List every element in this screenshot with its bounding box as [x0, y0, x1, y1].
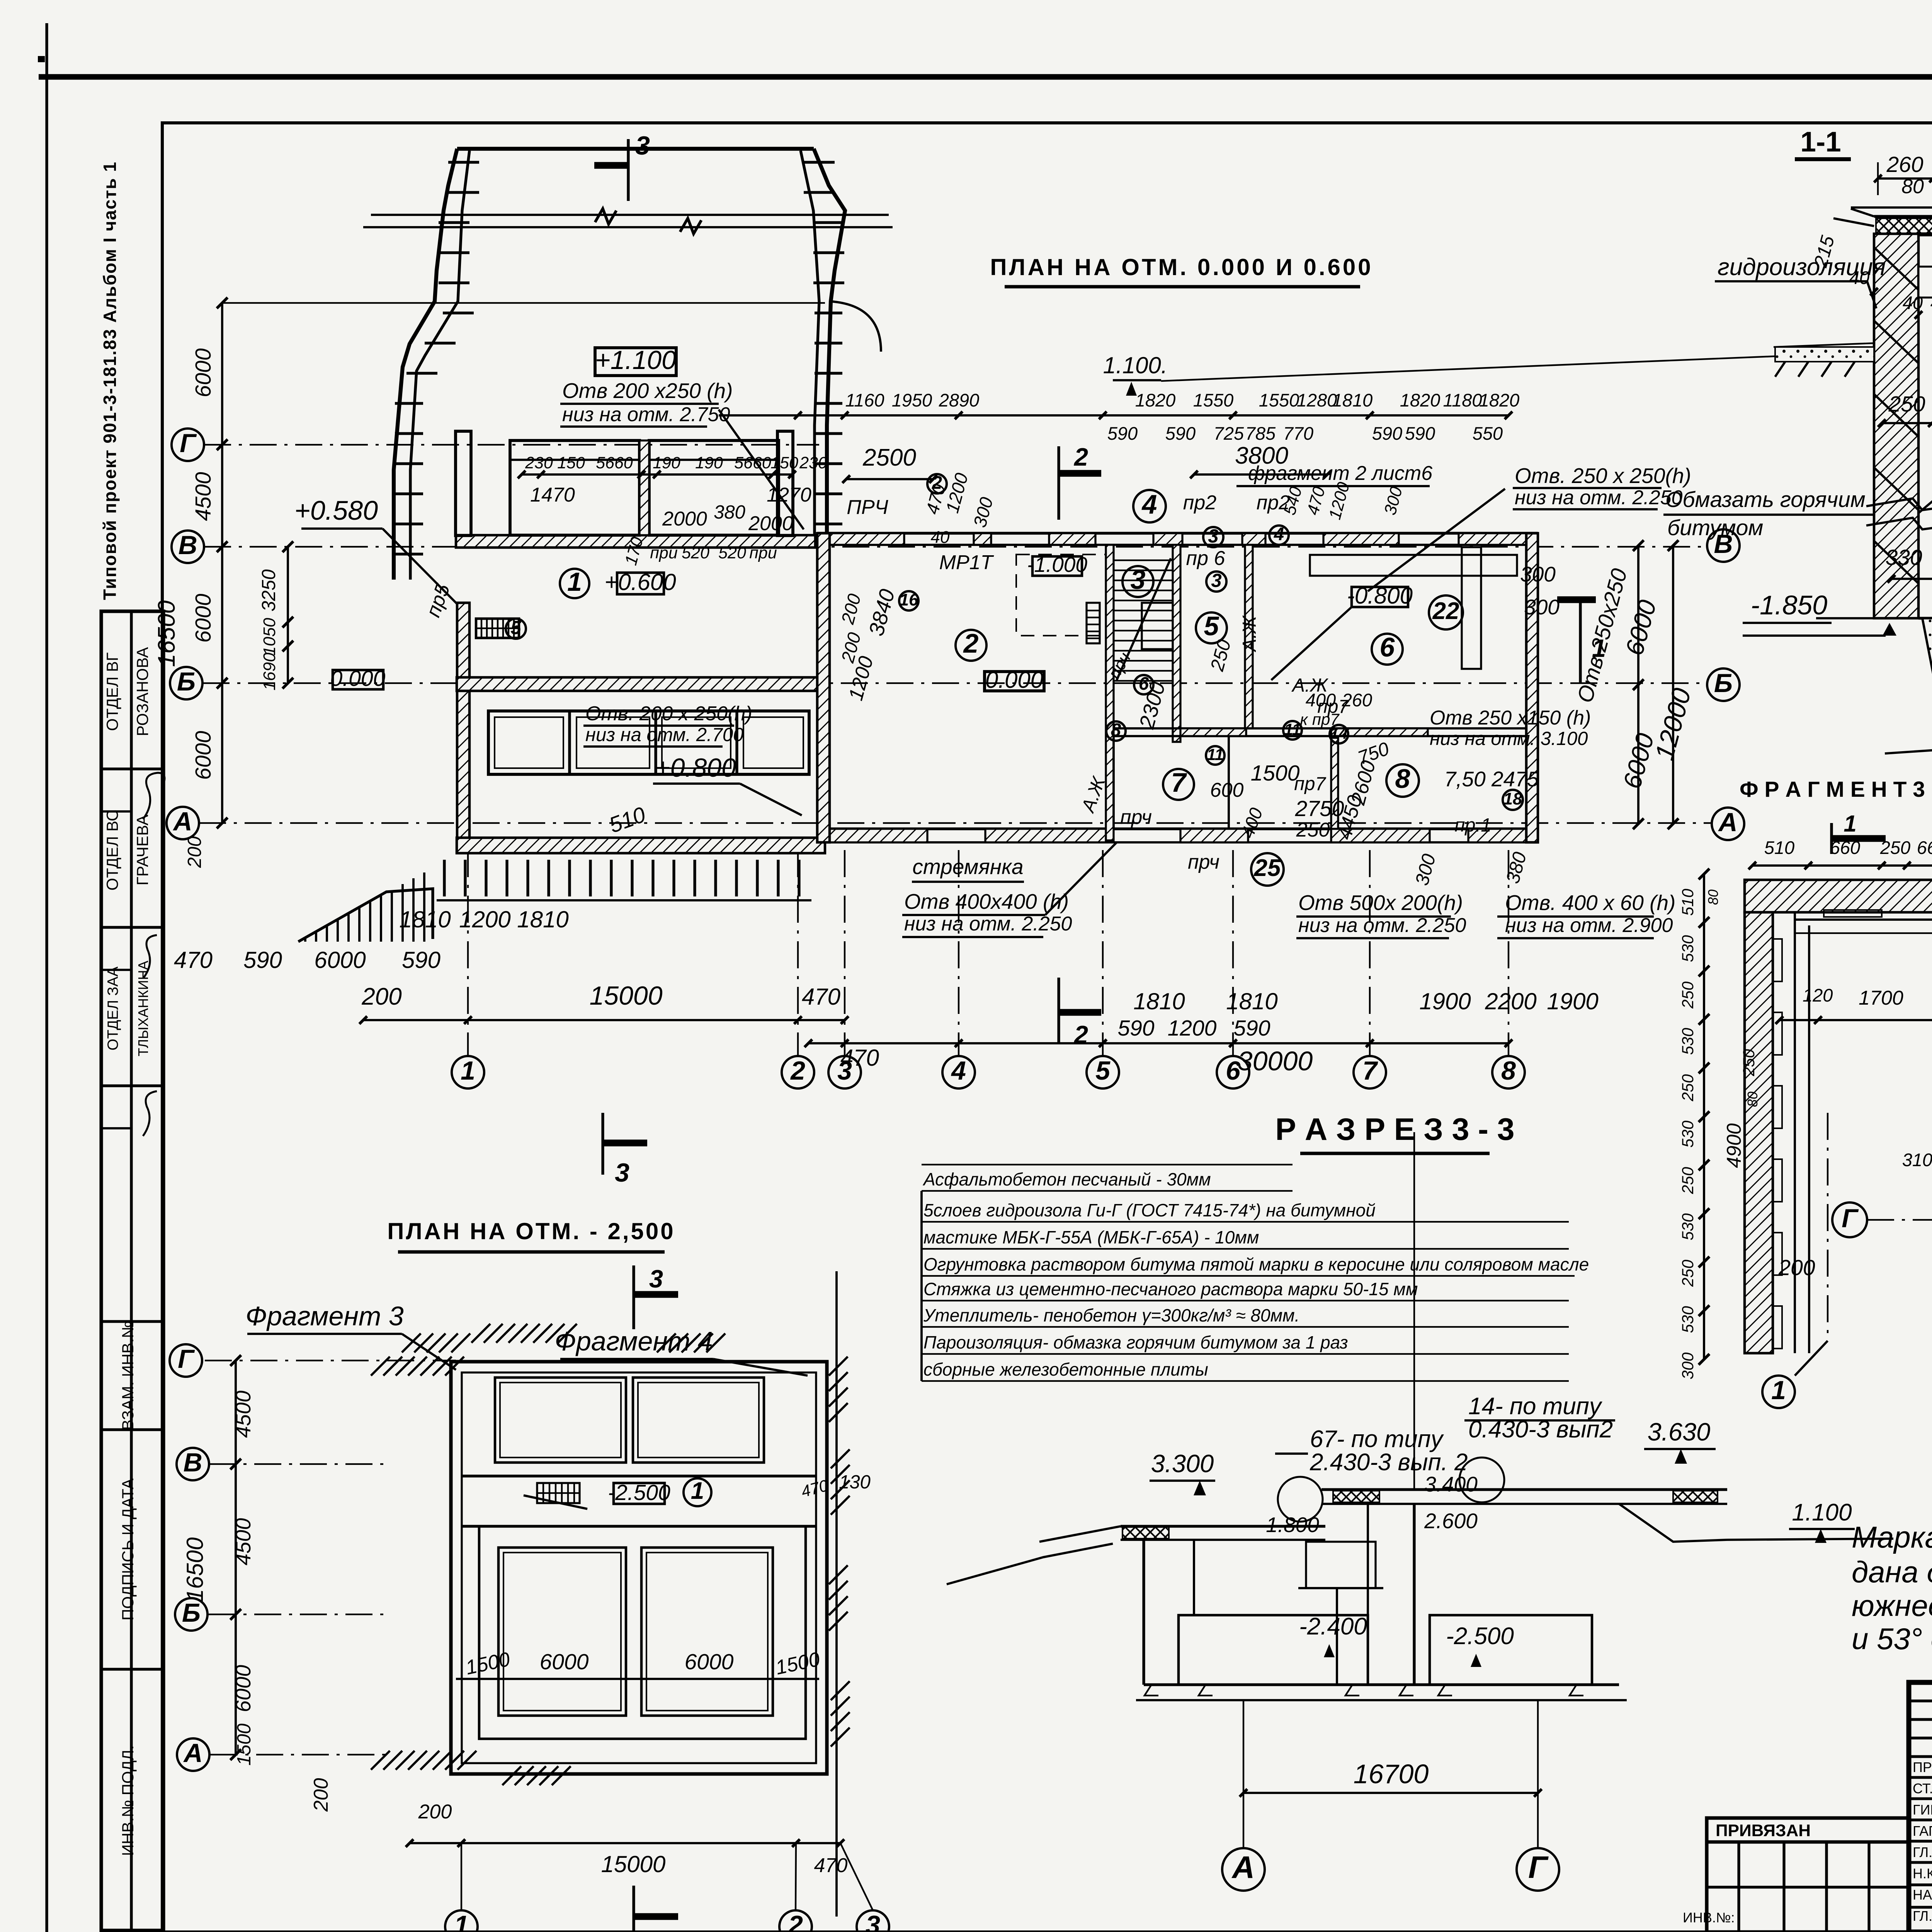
- svg-text:2750: 2750: [1295, 796, 1344, 821]
- фрагмент 3 top dims: [1748, 837, 1932, 869]
- stair block walls: [1106, 545, 1180, 840]
- svg-text:1950: 1950: [892, 390, 932, 410]
- svg-text:660: 660: [1830, 837, 1860, 858]
- section 1-1 dims top: [1874, 152, 1932, 198]
- svg-text:530: 530: [1679, 1213, 1697, 1240]
- svg-text:3.400: 3.400: [1424, 1472, 1478, 1496]
- plan -2.500 middle band: [524, 1478, 711, 1509]
- svg-text:А: А: [1231, 1850, 1255, 1885]
- svg-text:3250: 3250: [259, 569, 279, 611]
- plan -2.500 axes: [170, 1344, 456, 1812]
- svg-text:1: 1: [1844, 811, 1856, 837]
- svg-text:+0.800: +0.800: [655, 753, 736, 782]
- svg-text:НАЧ.ОТД: НАЧ.ОТД: [1913, 1887, 1932, 1903]
- svg-text:4900: 4900: [1723, 1123, 1745, 1168]
- svg-text:40: 40: [1903, 293, 1923, 313]
- svg-text:ПЛАН НА ОТМ. - 2,500: ПЛАН НА ОТМ. - 2,500: [387, 1218, 675, 1244]
- отв 200х250 label (2.700): [583, 702, 752, 747]
- svg-text:200: 200: [418, 1801, 452, 1823]
- pit dashed room2: [1016, 554, 1106, 636]
- svg-text:-1.850: -1.850: [1751, 590, 1828, 620]
- svg-text:4: 4: [1141, 489, 1157, 519]
- svg-text:дана для районов строительства: дана для районов строительства, располож…: [1852, 1555, 1932, 1589]
- отв 400х400 annotation: [902, 842, 1117, 937]
- svg-text:А.Ж: А.Ж: [1077, 774, 1110, 816]
- room1 grating: [476, 619, 519, 638]
- svg-text:3: 3: [866, 1910, 880, 1932]
- svg-text:пр5: пр5: [422, 581, 454, 620]
- elevation 0.000 room2: [985, 667, 1044, 693]
- svg-text:ПРЧ: ПРЧ: [847, 496, 888, 519]
- svg-text:2: 2: [790, 1056, 805, 1085]
- svg-text:5слоев гидроизола Ги-Г (ГОСТ 7: 5слоев гидроизола Ги-Г (ГОСТ 7415-74*) н…: [923, 1200, 1376, 1220]
- svg-text:3.630: 3.630: [1648, 1418, 1711, 1446]
- vent duct dashed room22: [1310, 547, 1517, 669]
- svg-text:4500: 4500: [231, 1390, 255, 1438]
- svg-text:ГАП: ГАП: [1913, 1823, 1932, 1839]
- svg-text:4: 4: [951, 1056, 966, 1085]
- interior wall y1895: [1114, 728, 1526, 736]
- svg-text:низ на отм. 3.100: низ на отм. 3.100: [1430, 728, 1588, 749]
- svg-text:5: 5: [1095, 1056, 1111, 1085]
- svg-text:590: 590: [1107, 423, 1138, 444]
- top dimension rows: [719, 390, 1519, 486]
- svg-text:Утеплитель- пенобетон γ=300кг/: Утеплитель- пенобетон γ=300кг/м³ ≈ 80мм.: [923, 1305, 1299, 1325]
- svg-text:300: 300: [1381, 485, 1406, 517]
- title block (stamp): [1909, 1682, 1932, 1932]
- svg-text:+0.600: +0.600: [604, 569, 676, 595]
- svg-text:660: 660: [1917, 837, 1932, 858]
- svg-text:250: 250: [1679, 1167, 1697, 1194]
- привязан annex table: [1683, 1818, 1909, 1932]
- фрагмент 4 dims: [1902, 1118, 1932, 1275]
- svg-text:ОТДЕЛ ЗАА: ОТДЕЛ ЗАА: [105, 966, 121, 1050]
- svg-text:190: 190: [695, 454, 723, 472]
- фрагмент 3 bottom circle 1: [1762, 1341, 1828, 1408]
- svg-text:540: 540: [1280, 485, 1306, 517]
- svg-text:1: 1: [1771, 1376, 1786, 1405]
- svg-text:1500: 1500: [1251, 761, 1300, 786]
- svg-text:ИНВ.№:: ИНВ.№:: [1683, 1910, 1735, 1925]
- фрагмент 3 Г axis circle: [1832, 1202, 1932, 1237]
- plan -2.500 upper rooms: [462, 1378, 816, 1526]
- svg-text:11: 11: [1284, 720, 1301, 738]
- svg-text:1-1: 1-1: [1800, 126, 1841, 158]
- отв 250х150 annotation: [1430, 707, 1591, 749]
- svg-text:ГЛ.ИНЖ.ИНО: ГЛ.ИНЖ.ИНО: [1913, 1908, 1932, 1924]
- room circles main: [899, 472, 1523, 886]
- svg-text:Г: Г: [1842, 1204, 1859, 1233]
- svg-text:В: В: [183, 1448, 202, 1477]
- svg-text:2200: 2200: [1485, 988, 1536, 1014]
- svg-text:260: 260: [1342, 690, 1372, 710]
- tank bins: [456, 431, 793, 536]
- отв 250x250 annotation: [1368, 464, 1691, 591]
- tank outer wall left: [394, 149, 469, 580]
- отв 200х250 label (top): [560, 379, 804, 529]
- svg-text:1810: 1810: [1332, 390, 1373, 410]
- svg-text:380: 380: [1502, 850, 1531, 886]
- svg-text:1900: 1900: [1419, 988, 1471, 1014]
- coagulant tanks row: [488, 711, 809, 774]
- svg-text:Типовой проект 901-3-181.83 А: Типовой проект 901-3-181.83 Альбом I час…: [100, 161, 120, 600]
- svg-text:80: 80: [1745, 1092, 1760, 1107]
- svg-text:470: 470: [814, 1854, 848, 1877]
- svg-text:низ на отм. 2.700: низ на отм. 2.700: [585, 724, 743, 745]
- гидроизоляция label: [1715, 254, 1886, 308]
- svg-text:530: 530: [1679, 935, 1697, 962]
- elevation -0.800: [1271, 583, 1413, 680]
- svg-text:1500: 1500: [234, 1723, 255, 1765]
- svg-text:пр 6: пр 6: [1186, 547, 1225, 570]
- svg-text:25: 25: [1254, 855, 1281, 881]
- svg-text:12000: 12000: [1650, 685, 1697, 763]
- svg-text:130: 130: [839, 1472, 871, 1493]
- svg-text:470: 470: [174, 947, 213, 973]
- title план на отм -2.500: [387, 1218, 675, 1252]
- svg-text:прч: прч: [1120, 806, 1152, 828]
- svg-text:3: 3: [649, 1925, 663, 1932]
- svg-text:3: 3: [1211, 570, 1221, 591]
- svg-text:230: 230: [799, 454, 827, 472]
- фрагмент 4 label (plan2): [554, 1326, 808, 1376]
- wall axis Б left part: [457, 677, 823, 691]
- long vertical line right of plan2: [835, 1271, 838, 1917]
- svg-text:Б: Б: [182, 1598, 201, 1628]
- svg-text:3840: 3840: [864, 587, 900, 639]
- svg-text:11: 11: [1207, 745, 1224, 764]
- svg-text:5: 5: [510, 617, 521, 638]
- section 3-3 drawing: [947, 1490, 1893, 1700]
- svg-text:А: А: [1718, 808, 1737, 837]
- svg-text:200: 200: [184, 836, 205, 868]
- svg-text:1820: 1820: [1479, 390, 1520, 410]
- svg-text:Отв. 400 х 60 (h): Отв. 400 х 60 (h): [1505, 891, 1675, 915]
- фрагмент 3 1700 dim: [1776, 985, 1932, 1024]
- svg-text:5: 5: [1204, 611, 1219, 641]
- plan -2.500 bottom dims: [406, 1801, 889, 1932]
- section mark 3 plan2 top: [634, 1265, 678, 1329]
- svg-text:30000: 30000: [1238, 1046, 1313, 1076]
- svg-text:8: 8: [1501, 1056, 1516, 1085]
- svg-text:1160: 1160: [845, 390, 884, 410]
- svg-text:2.430-3 вып. 2: 2.430-3 вып. 2: [1310, 1449, 1468, 1476]
- стремянка label: [912, 855, 1024, 882]
- plan -2.500 inner dims: [456, 1472, 871, 1679]
- svg-text:1500: 1500: [464, 1648, 512, 1679]
- svg-text:2: 2: [1073, 443, 1088, 471]
- svg-text:А.Ж: А.Ж: [1239, 615, 1260, 652]
- column circles bottom: [452, 1056, 1525, 1088]
- svg-text:3: 3: [1208, 526, 1218, 547]
- svg-text:фрагмент 2 лист6: фрагмент 2 лист6: [1248, 462, 1432, 485]
- note about mastika: [1852, 1520, 1932, 1656]
- elevation +0.600: [604, 569, 676, 595]
- svg-text:300: 300: [1412, 852, 1440, 888]
- svg-text:1.100.: 1.100.: [1103, 352, 1168, 378]
- svg-text:Г: Г: [180, 429, 197, 458]
- svg-text:510: 510: [606, 802, 649, 838]
- svg-text:Б: Б: [177, 667, 196, 696]
- tank outer wall right: [801, 149, 881, 535]
- svg-text:ОТДЕЛ ВС: ОТДЕЛ ВС: [103, 810, 121, 891]
- interior wall x3450: [1331, 736, 1338, 829]
- section 1-1 wall hatch extra: [1874, 247, 1918, 583]
- svg-text:ПРОВЕР.: ПРОВЕР.: [1913, 1759, 1932, 1775]
- svg-text:2500: 2500: [862, 444, 916, 471]
- svg-text:16500: 16500: [182, 1537, 208, 1602]
- svg-text:300: 300: [1679, 1352, 1697, 1379]
- svg-text:ГРАЧЕВА: ГРАЧЕВА: [133, 815, 151, 885]
- svg-text:-2.500: -2.500: [608, 1480, 670, 1505]
- svg-text:Отв 200 х250 (h): Отв 200 х250 (h): [562, 379, 733, 403]
- dims below left part: [174, 906, 849, 1024]
- svg-text:1: 1: [1592, 634, 1606, 662]
- svg-text:770: 770: [1283, 423, 1313, 444]
- svg-text:8: 8: [1111, 719, 1121, 740]
- roof spec text block: [922, 1132, 1589, 1490]
- svg-text:к пр7: к пр7: [1300, 710, 1340, 728]
- svg-text:16700: 16700: [1354, 1759, 1429, 1789]
- svg-text:520: 520: [718, 544, 746, 562]
- svg-text:Г: Г: [1528, 1850, 1549, 1885]
- svg-text:600: 600: [1210, 779, 1244, 801]
- svg-text:200: 200: [310, 1778, 332, 1812]
- svg-text:А: А: [172, 807, 192, 836]
- svg-text:1700: 1700: [1859, 987, 1903, 1009]
- svg-text:190: 190: [653, 454, 680, 472]
- building right wall: [1526, 533, 1538, 842]
- svg-text:4500: 4500: [191, 472, 216, 521]
- svg-text:150: 150: [770, 454, 798, 472]
- svg-text:МР1Т: МР1Т: [939, 551, 994, 574]
- svg-text:530: 530: [1679, 1306, 1697, 1333]
- фрагмент 3 left dim chain: [1679, 869, 1760, 1379]
- svg-text:16: 16: [900, 590, 918, 609]
- svg-text:2890: 2890: [939, 390, 980, 410]
- фрагмент 3 label (plan2): [245, 1301, 456, 1370]
- section mark 1: [1524, 595, 1606, 684]
- svg-text:590: 590: [1372, 423, 1402, 444]
- svg-text:1820: 1820: [1400, 390, 1440, 410]
- svg-text:6000: 6000: [314, 947, 366, 973]
- svg-text:2: 2: [1073, 1020, 1088, 1049]
- svg-text:Фрагмент 4: Фрагмент 4: [554, 1326, 713, 1356]
- svg-text:1.100: 1.100: [1792, 1499, 1852, 1526]
- svg-text:300: 300: [969, 495, 997, 529]
- section 1-1 roof slab: [1833, 207, 1932, 235]
- отмостка strip and 1.100 level: [1103, 343, 1875, 396]
- section 1-1 foundation: [1816, 618, 1932, 688]
- svg-text:530: 530: [1679, 1027, 1697, 1055]
- svg-text:2000: 2000: [748, 512, 793, 535]
- tank break lines: [363, 209, 893, 234]
- svg-text:120: 120: [1803, 985, 1833, 1005]
- svg-text:0.000: 0.000: [330, 666, 386, 691]
- svg-text:230: 230: [525, 454, 553, 472]
- svg-text:750: 750: [1355, 738, 1392, 769]
- plan -2.500 lower room: [479, 1526, 806, 1739]
- svg-text:67- по типу: 67- по типу: [1310, 1426, 1444, 1452]
- svg-text:Обмазать горячим: Обмазать горячим: [1665, 487, 1866, 512]
- svg-text:1: 1: [567, 567, 582, 597]
- svg-text:битумом: битумом: [1667, 515, 1763, 540]
- svg-text:250: 250: [1296, 819, 1330, 841]
- section mark 2 bottom: [1059, 978, 1101, 1049]
- svg-text:1: 1: [454, 1910, 469, 1932]
- building left wall: [817, 533, 830, 842]
- svg-text:590: 590: [1233, 1016, 1270, 1041]
- svg-text:6000: 6000: [540, 1650, 589, 1674]
- svg-text:200: 200: [1778, 1255, 1815, 1280]
- right side dims: [1573, 540, 1697, 829]
- section mark 2 top: [1059, 443, 1101, 520]
- svg-text:1470: 1470: [530, 484, 575, 506]
- section mark 3 bottom: [603, 1113, 647, 1187]
- svg-text:300: 300: [1520, 562, 1556, 586]
- svg-text:400: 400: [1306, 690, 1336, 710]
- section 1-1 wall break marks: [1866, 498, 1932, 529]
- svg-text:310: 310: [1902, 1150, 1932, 1170]
- svg-text:1550: 1550: [1259, 390, 1299, 410]
- 4900 vertical dim: [1723, 1123, 1745, 1168]
- svg-text:при: при: [650, 544, 678, 562]
- svg-text:3: 3: [615, 1158, 629, 1187]
- svg-text:Г: Г: [178, 1344, 195, 1374]
- room 7 walls: [1114, 736, 1229, 829]
- label +0.580: [294, 495, 458, 605]
- svg-text:200: 200: [837, 592, 865, 626]
- svg-text:Б: Б: [1714, 668, 1733, 698]
- svg-text:6000: 6000: [1620, 597, 1662, 658]
- svg-text:3.300: 3.300: [1151, 1449, 1214, 1478]
- svg-text:470: 470: [1303, 485, 1329, 517]
- vertical sheet title: [100, 161, 120, 600]
- svg-text:ГИП: ГИП: [1913, 1802, 1932, 1818]
- scan page left edge line: [45, 23, 48, 1932]
- svg-text:7: 7: [1171, 767, 1187, 798]
- tank bin dims: [518, 454, 827, 567]
- elevation +1.100: [595, 345, 676, 376]
- svg-text:ПРИВЯЗАН: ПРИВЯЗАН: [1716, 1821, 1811, 1840]
- svg-text:22: 22: [1432, 598, 1459, 624]
- svg-text:-2.500: -2.500: [1446, 1623, 1514, 1650]
- svg-text:725: 725: [1214, 423, 1244, 444]
- svg-text:380: 380: [714, 502, 745, 523]
- svg-text:400: 400: [1237, 805, 1267, 840]
- svg-text:пр2: пр2: [1183, 492, 1217, 514]
- svg-text:510: 510: [1764, 837, 1794, 858]
- svg-text:Отв 500х 200(h): Отв 500х 200(h): [1298, 891, 1463, 915]
- svg-text:530: 530: [1679, 1120, 1697, 1148]
- svg-text:2: 2: [963, 628, 979, 658]
- svg-text:1: 1: [461, 1056, 475, 1085]
- section mark 3 plan2 bottom: [634, 1886, 678, 1932]
- svg-text:590: 590: [402, 947, 440, 973]
- interior wall x3230: [1245, 545, 1253, 728]
- svg-text:260: 260: [1886, 152, 1923, 177]
- svg-text:1810: 1810: [1133, 988, 1185, 1014]
- svg-text:40: 40: [931, 528, 950, 547]
- svg-text:6000: 6000: [191, 594, 216, 643]
- svg-text:+1.100: +1.100: [595, 345, 676, 375]
- svg-text:520: 520: [682, 544, 709, 562]
- svg-text:470: 470: [802, 984, 840, 1010]
- svg-text:7,50 2475: 7,50 2475: [1444, 767, 1539, 791]
- plan -2.500 ground hatching: [371, 1324, 850, 1785]
- svg-text:1500: 1500: [774, 1648, 822, 1679]
- svg-text:сборные железобетонные плиты: сборные железобетонные плиты: [923, 1359, 1208, 1379]
- left part bottom wall: [457, 838, 825, 853]
- small ladder room2: [1087, 603, 1100, 643]
- svg-text:пр.1: пр.1: [1454, 815, 1491, 836]
- building bottom wall: [817, 829, 1538, 842]
- svg-text:1550: 1550: [1193, 390, 1234, 410]
- svg-text:785: 785: [1245, 423, 1276, 444]
- elevation -1.000: [1027, 553, 1087, 577]
- section 1-1 small dims: [1810, 233, 1932, 583]
- svg-text:1200: 1200: [942, 471, 972, 515]
- svg-text:при: при: [749, 544, 777, 562]
- svg-text:590: 590: [243, 947, 282, 973]
- section 3-3 detail bubbles: [1275, 1393, 1615, 1522]
- svg-text:ОТДЕЛ ВГ: ОТДЕЛ ВГ: [103, 652, 121, 731]
- svg-text:СТ.АРХ.: СТ.АРХ.: [1913, 1781, 1932, 1796]
- svg-text:1200: 1200: [459, 906, 510, 932]
- фрагмент 3 title: [1740, 777, 1925, 854]
- svg-text:250: 250: [1740, 1049, 1758, 1077]
- svg-text:ПЛАН НА ОТМ. 0.000 И 0.600: ПЛАН НА ОТМ. 0.000 И 0.600: [990, 254, 1373, 280]
- svg-text:1810: 1810: [399, 906, 451, 932]
- svg-text:7: 7: [1362, 1056, 1378, 1085]
- svg-text:4500: 4500: [231, 1518, 255, 1565]
- elevation 0.000 (outdoor): [330, 666, 386, 691]
- svg-text:18: 18: [1503, 789, 1522, 808]
- section 3-3 bottom dim: [1222, 1700, 1559, 1891]
- svg-text:1.800: 1.800: [1266, 1513, 1319, 1537]
- svg-text:250: 250: [1679, 981, 1697, 1009]
- svg-text:2000: 2000: [662, 508, 707, 530]
- svg-text:1900: 1900: [1547, 988, 1598, 1014]
- svg-text:низ на отм. 2.250: низ на отм. 2.250: [1515, 486, 1683, 509]
- svg-text:6000: 6000: [191, 731, 216, 780]
- svg-text:250: 250: [1679, 1259, 1697, 1287]
- svg-text:Отв. 250 х 250(h): Отв. 250 х 250(h): [1515, 464, 1691, 488]
- tank wall ticks: [395, 162, 844, 554]
- svg-text:250: 250: [1679, 1074, 1697, 1102]
- svg-text:15000: 15000: [601, 1851, 666, 1877]
- title план на отм 0.000 и 0.600: [990, 254, 1373, 287]
- svg-text:Н.КОНТР.: Н.КОНТР.: [1913, 1866, 1932, 1881]
- section 1-1 wall: [1874, 234, 1932, 618]
- axis circles right: [1707, 529, 1744, 840]
- room 1 circle: [560, 567, 589, 598]
- ground tick row below left building: [437, 860, 811, 900]
- door labels: [847, 492, 1491, 873]
- svg-text:Стяжка из цементно-песчаного р: Стяжка из цементно-песчаного раствора ма…: [923, 1279, 1418, 1299]
- svg-text:-0.800: -0.800: [1347, 583, 1413, 609]
- svg-text:В: В: [178, 531, 197, 560]
- svg-text:Огрунтовка раствором битума пя: Огрунтовка раствором битума пятой марки …: [923, 1254, 1589, 1274]
- left stamp column: [101, 611, 165, 1930]
- building top wall (axis В): [817, 533, 1538, 545]
- svg-text:6000: 6000: [191, 348, 216, 397]
- svg-text:ВЗАМ. ИНВ.№: ВЗАМ. ИНВ.№: [119, 1321, 137, 1430]
- svg-text:200: 200: [361, 983, 401, 1010]
- room 1 west wall: [457, 603, 469, 842]
- svg-text:15000: 15000: [589, 981, 662, 1010]
- main plan axis lines: [199, 445, 1712, 1056]
